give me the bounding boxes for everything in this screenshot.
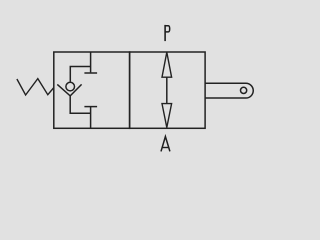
roller circle [241, 87, 247, 93]
check valve ball [66, 82, 75, 91]
roller actuator stem (right) [205, 83, 253, 98]
wire: upper port line (left box, from top edge) [90, 52, 92, 72]
closed port T (upper) [84, 72, 97, 74]
port label A [161, 137, 170, 152]
flow path arrow shaft (right box) [166, 76, 168, 105]
closed port T (lower) [84, 106, 97, 108]
port label P [165, 25, 170, 41]
spring (return spring, left) [17, 79, 54, 95]
flow arrowhead down (to A) [162, 104, 172, 128]
check valve seat (V) [57, 84, 81, 96]
valve body right box [130, 52, 206, 128]
wire: lower port line (left box, to bottom edge) [90, 107, 92, 129]
wire: branch to check valve (upper) [70, 67, 90, 82]
wire: lower branch from seat [70, 96, 90, 113]
flow arrowhead up (to P) [162, 52, 172, 77]
valve body left box [54, 52, 130, 128]
